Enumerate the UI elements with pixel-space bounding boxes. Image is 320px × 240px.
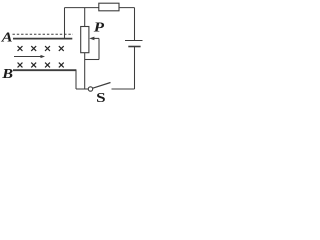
svg-text:B: B: [1, 66, 13, 82]
svg-text:S: S: [96, 90, 106, 103]
svg-text:A: A: [1, 30, 13, 46]
svg-text:P: P: [94, 20, 105, 35]
